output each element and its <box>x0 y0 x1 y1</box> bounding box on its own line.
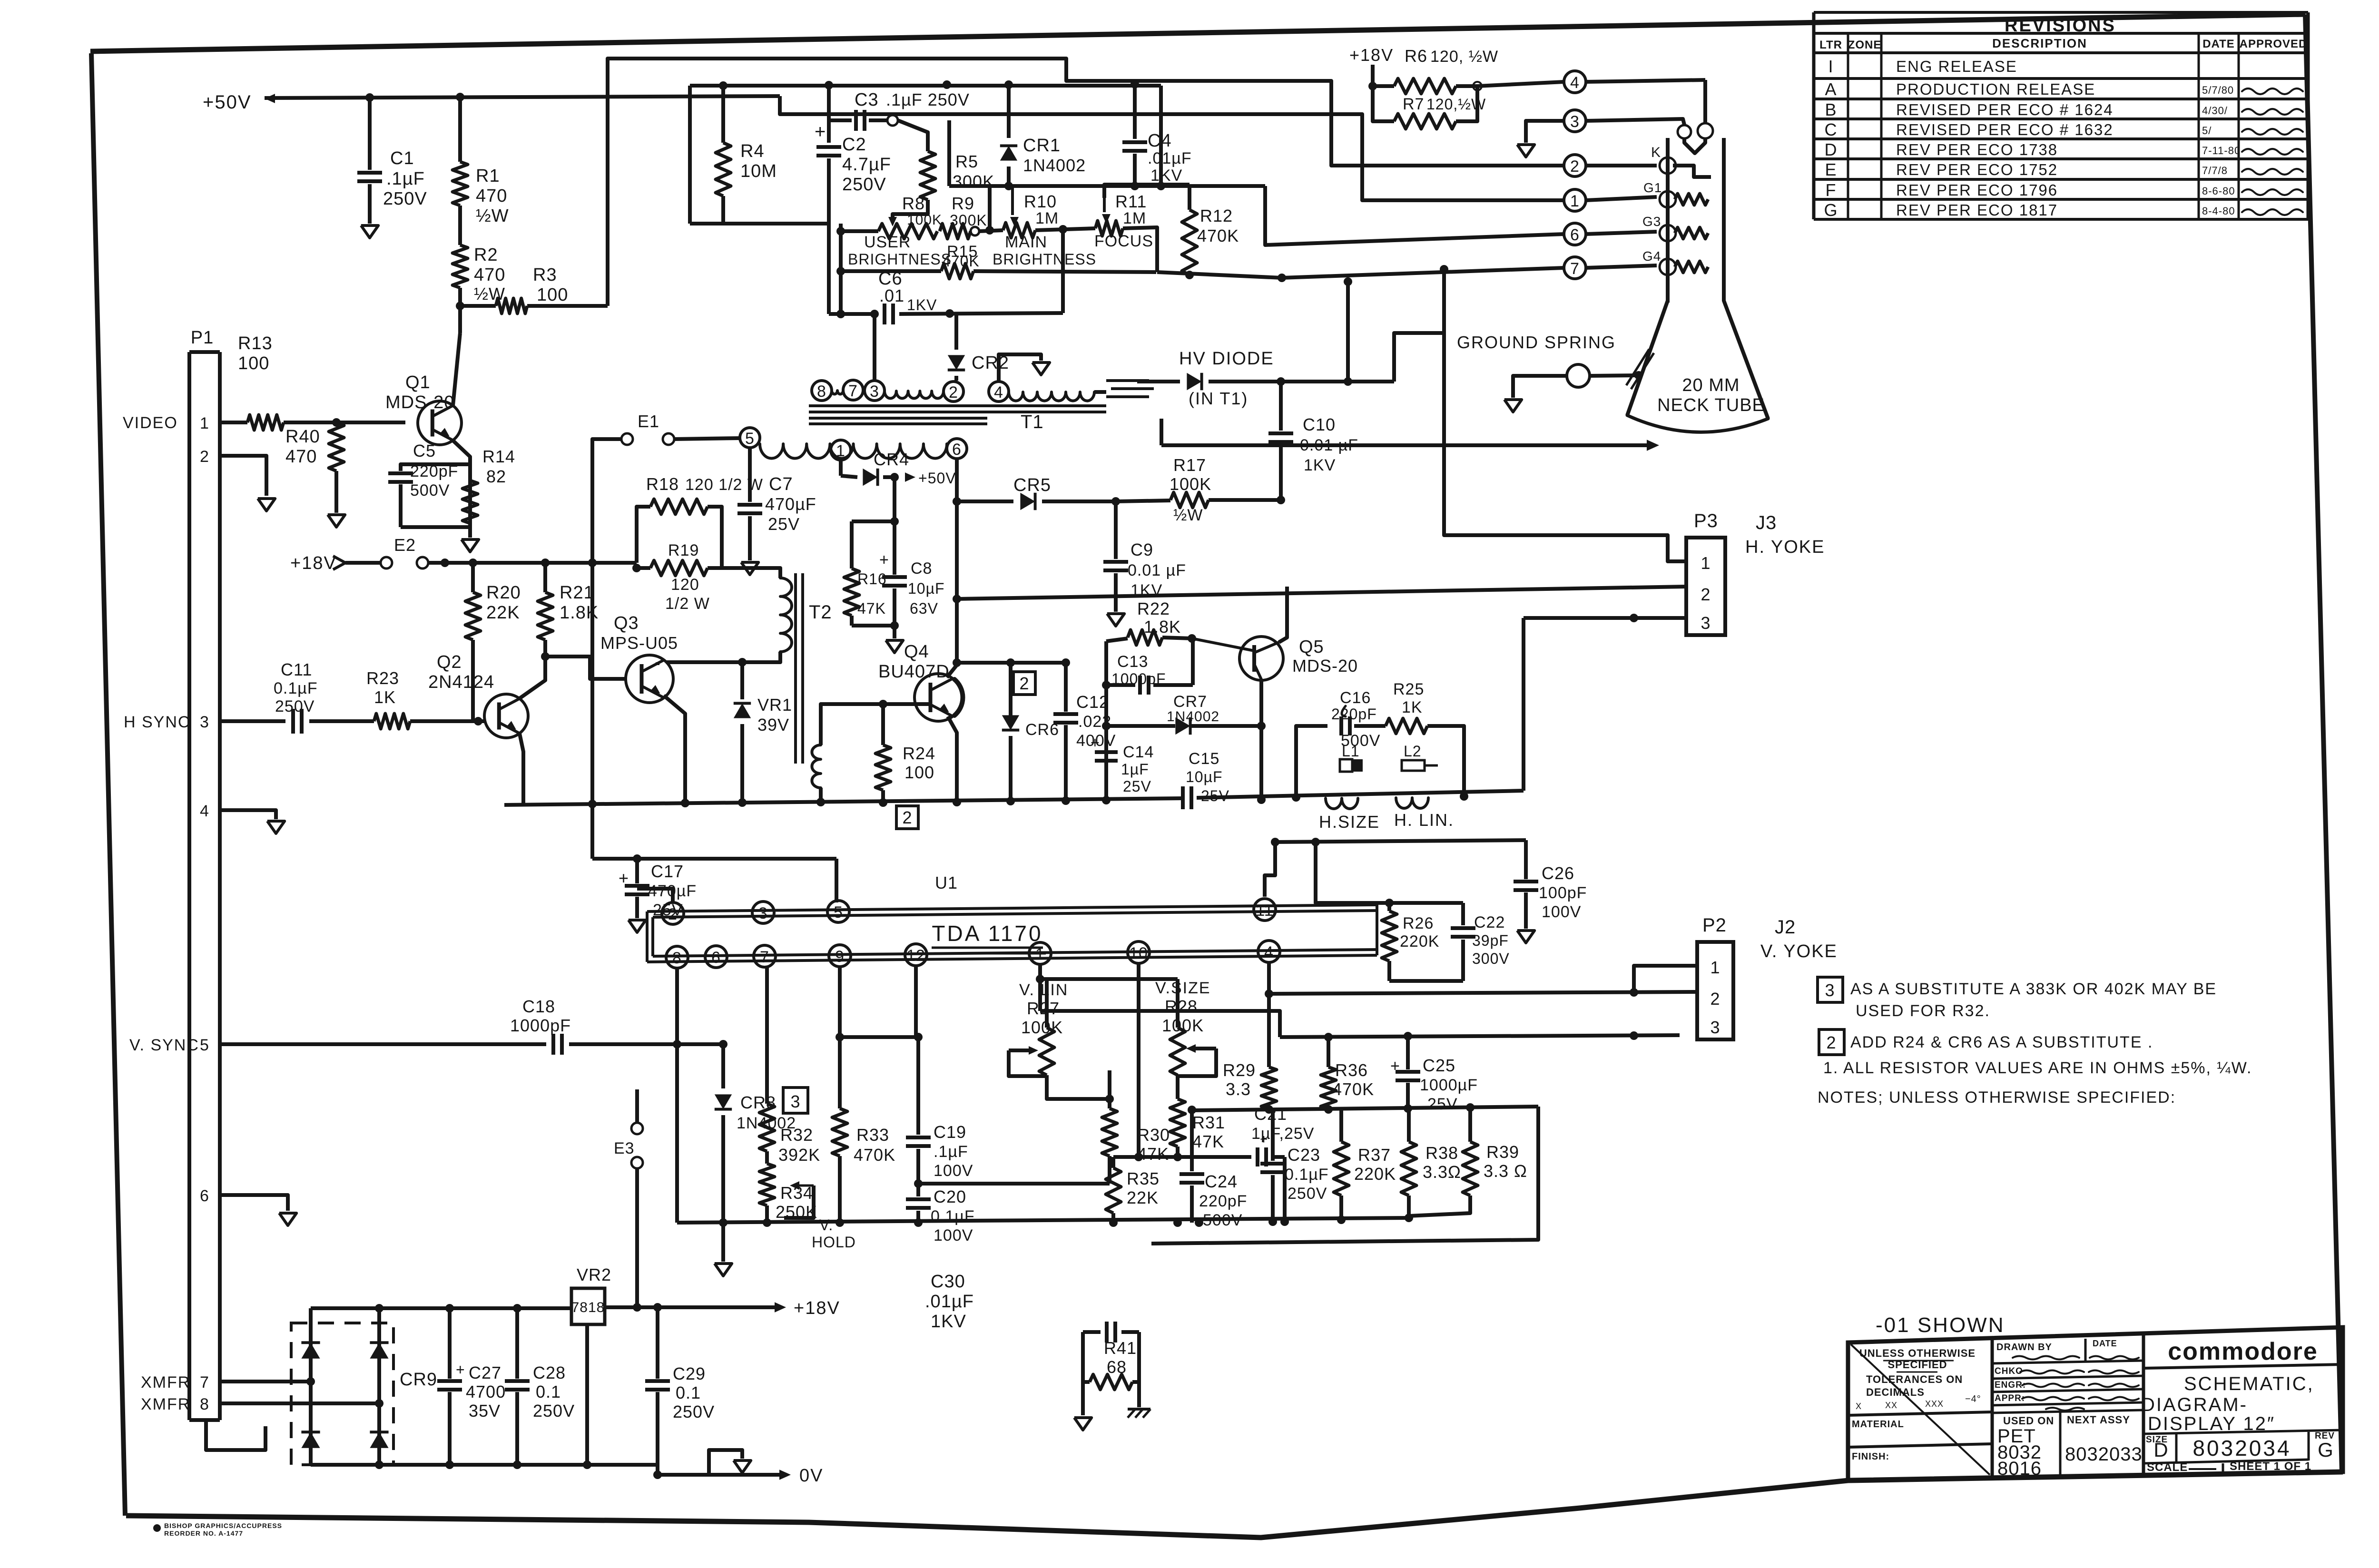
svg-text:7: 7 <box>1570 260 1580 278</box>
wire T2 secondary bottom <box>819 788 823 802</box>
svg-text:P1: P1 <box>191 328 214 348</box>
svg-text:100K: 100K <box>1021 1018 1063 1037</box>
svg-text:H. LIN.: H. LIN. <box>1394 810 1454 830</box>
svg-text:4: 4 <box>1264 943 1274 961</box>
capacitor C24 <box>1190 1109 1194 1171</box>
svg-text:8: 8 <box>672 949 682 967</box>
svg-text:J3: J3 <box>1756 512 1777 533</box>
svg-text:250V: 250V <box>1288 1185 1327 1203</box>
svg-text:6: 6 <box>952 441 962 459</box>
svg-text:CHKO: CHKO <box>1995 1366 2023 1376</box>
svg-text:C9: C9 <box>1131 540 1153 559</box>
svg-text:5/7/80: 5/7/80 <box>2202 84 2234 96</box>
svg-text:CR5: CR5 <box>1013 475 1051 495</box>
svg-text:C30: C30 <box>931 1272 965 1292</box>
svg-text:220K: 220K <box>1354 1164 1396 1184</box>
svg-text:DECIMALS: DECIMALS <box>1866 1386 1925 1398</box>
svg-text:−4°: −4° <box>1965 1394 1981 1404</box>
svg-text:25V: 25V <box>653 901 683 919</box>
resistor R35 <box>1113 1155 1178 1159</box>
svg-text:470K: 470K <box>854 1145 895 1165</box>
svg-text:470: 470 <box>474 265 505 285</box>
V network return loop <box>1151 1107 1538 1244</box>
resistor R36 <box>1327 1037 1330 1067</box>
svg-text:C17: C17 <box>651 862 684 881</box>
svg-text:3.3 Ω: 3.3 Ω <box>1484 1161 1527 1181</box>
svg-text:470K: 470K <box>1332 1079 1374 1099</box>
R28 wiper loop <box>1178 1049 1216 1076</box>
svg-text:R20: R20 <box>486 583 521 603</box>
svg-text:Q3: Q3 <box>614 613 639 633</box>
svg-text:C15: C15 <box>1189 750 1219 768</box>
T1 pin 3 <box>865 381 885 401</box>
svg-text:5: 5 <box>745 430 755 448</box>
svg-text:7: 7 <box>760 948 769 966</box>
svg-text:R32: R32 <box>780 1125 813 1145</box>
svg-text:R23: R23 <box>366 668 399 688</box>
svg-text:1000µF: 1000µF <box>1420 1076 1478 1094</box>
svg-text:C13: C13 <box>1117 653 1148 671</box>
svg-text:+: + <box>879 551 889 569</box>
wire pin1 net to P2 pin3 <box>1040 1011 1280 1037</box>
note 3 box <box>1818 977 1843 1002</box>
capacitor C27 (polarized) <box>448 1308 452 1379</box>
svg-text:SCALE: SCALE <box>2147 1461 2188 1474</box>
svg-text:120 1/2 W: 120 1/2 W <box>685 476 763 494</box>
resistor R37 <box>1339 1109 1343 1142</box>
svg-text:R4: R4 <box>740 141 765 161</box>
svg-text:4: 4 <box>994 383 1003 402</box>
resistor R19 <box>637 566 650 570</box>
svg-text:220pF: 220pF <box>1199 1192 1247 1210</box>
title block size/dwg row <box>2143 1430 2343 1434</box>
svg-text:VIDEO: VIDEO <box>123 414 178 432</box>
svg-text:R26: R26 <box>1403 914 1434 932</box>
T1 core lines <box>809 404 1106 407</box>
svg-text:120: 120 <box>671 576 699 594</box>
P1 bottom hook wire <box>206 1420 265 1450</box>
R8 wiper from R5 <box>888 217 897 226</box>
resistor R40 <box>329 422 344 471</box>
note box 3 above R32 <box>783 1088 808 1113</box>
T1 tap pin 1 <box>831 440 851 460</box>
supply bottom rail <box>311 1463 658 1467</box>
svg-text:100: 100 <box>238 353 269 373</box>
wire trunk left of R22 <box>1104 641 1108 800</box>
T1 pin 7 <box>843 380 863 400</box>
svg-text:C26: C26 <box>1542 863 1574 883</box>
U1 pin 5 <box>827 901 849 922</box>
resistor R32 <box>759 1104 775 1151</box>
svg-text:H. YOKE: H. YOKE <box>1745 537 1825 557</box>
T1 winding 3-2 <box>885 391 944 398</box>
svg-text:5: 5 <box>834 903 843 921</box>
capacitor C18 series <box>551 1034 555 1055</box>
node dot C1 top <box>365 93 374 102</box>
diode CR2 <box>954 314 958 350</box>
capacitor C26 <box>1524 840 1528 879</box>
inductor L1 slug symbol <box>1340 759 1352 772</box>
svg-text:B: B <box>1825 100 1837 119</box>
wire +18V drop <box>1371 65 1375 86</box>
svg-text:NOTES; UNLESS OTHERWISE SPE: NOTES; UNLESS OTHERWISE SPECIFIED: <box>1818 1088 2176 1107</box>
P1 pin6 ground stub <box>220 1195 288 1211</box>
svg-text:R37: R37 <box>1358 1145 1391 1165</box>
wire C2 bottom to C6 node <box>827 224 831 314</box>
svg-text:.1µF: .1µF <box>386 169 425 189</box>
ground below C9 <box>1107 614 1124 626</box>
wire J3 pin3 <box>1524 616 1686 620</box>
svg-text:C27: C27 <box>469 1363 501 1382</box>
svg-text:1/2 W: 1/2 W <box>665 595 710 613</box>
svg-text:R2: R2 <box>474 245 498 265</box>
supply top rail +18V unreg <box>311 1306 571 1310</box>
svg-text:2: 2 <box>1701 585 1711 604</box>
resistor R39 <box>1468 1107 1472 1142</box>
wire Q2 collector to Q3 base <box>545 657 627 679</box>
capacitor C29 <box>656 1307 659 1379</box>
svg-text:0.01 µF: 0.01 µF <box>1128 561 1186 579</box>
svg-text:V.SIZE: V.SIZE <box>1155 979 1211 997</box>
svg-text:470: 470 <box>285 447 317 467</box>
wire Q1 emitter to C5/R14 <box>453 441 470 464</box>
capacitor C11 in H sync line <box>220 719 285 723</box>
svg-text:VR2: VR2 <box>577 1265 611 1284</box>
T1 secondary winding 5-6 <box>740 428 760 448</box>
svg-text:C: C <box>1825 120 1838 139</box>
U1 pin 1 <box>1029 942 1051 964</box>
svg-text:20 MM: 20 MM <box>1682 375 1740 395</box>
svg-text:R18: R18 <box>646 474 679 494</box>
svg-text:C2: C2 <box>842 135 866 155</box>
svg-text:C19: C19 <box>934 1122 966 1142</box>
+50V output arrow <box>890 473 899 481</box>
svg-text:D: D <box>1825 140 1838 159</box>
H section bottom rail <box>504 798 1183 805</box>
svg-text:DIAGRAM-: DIAGRAM- <box>2141 1394 2248 1415</box>
svg-text:REVISED PER ECO # 1632: REVISED PER ECO # 1632 <box>1896 121 2114 138</box>
svg-text:REORDER NO. A-1477: REORDER NO. A-1477 <box>164 1529 243 1537</box>
svg-text:CR7: CR7 <box>1173 693 1207 711</box>
wire pin1/R27-R28 connection <box>1108 1070 1111 1099</box>
resistor R11 FOCUS pot <box>1095 221 1123 236</box>
svg-text:½W: ½W <box>476 206 509 226</box>
U1 pin 7 <box>754 945 776 967</box>
circled wire number 7 <box>1564 257 1586 279</box>
T1 chassis triple bar <box>1106 379 1149 382</box>
wire brightness bus y391 <box>949 184 1265 188</box>
svg-text:F: F <box>1826 180 1837 200</box>
pot R27 V LIN <box>1045 979 1049 1028</box>
wire T2 primary bottom to Q3 <box>666 652 780 662</box>
svg-text:1. ALL RESISTOR VALUES ARE IN: 1. ALL RESISTOR VALUES ARE IN OHMS ±5%, … <box>1823 1059 2252 1077</box>
svg-text:100V: 100V <box>934 1226 973 1245</box>
resistor R8 USER BRIGHTNESS pot <box>878 224 937 239</box>
resistor R12 <box>1188 185 1191 210</box>
svg-text:250V: 250V <box>275 697 315 715</box>
ground at P1 pin6 <box>279 1213 296 1225</box>
svg-text:R27: R27 <box>1027 999 1060 1018</box>
svg-text:E: E <box>1825 160 1837 179</box>
wire C19 bottom to R30 <box>918 1182 1110 1186</box>
wire Q2 collector <box>520 657 545 698</box>
T1 winding 8-7 <box>832 391 843 394</box>
svg-text:C12: C12 <box>1076 692 1109 712</box>
wire to G3 grid line <box>1265 186 1564 245</box>
svg-text:4.7µF: 4.7µF <box>842 155 891 175</box>
wire C17 top feed <box>592 857 836 861</box>
svg-text:68: 68 <box>1107 1357 1127 1377</box>
CRT grid3 resistor <box>1675 227 1708 239</box>
wire Q2 emitter down to rail <box>520 734 523 805</box>
svg-text:3.3Ω: 3.3Ω <box>1423 1162 1461 1182</box>
sheet top border <box>90 14 2305 51</box>
svg-text:2: 2 <box>1710 989 1720 1009</box>
svg-text:R6: R6 <box>1405 46 1427 66</box>
svg-text:+18V: +18V <box>290 553 337 573</box>
svg-text:USER: USER <box>864 233 911 251</box>
svg-text:R29: R29 <box>1223 1060 1256 1080</box>
wire P2 pin2 long <box>1269 992 1697 994</box>
svg-text:392K: 392K <box>778 1145 820 1165</box>
svg-text:4: 4 <box>200 802 209 820</box>
svg-text:+50V: +50V <box>918 470 956 487</box>
revisions table grid <box>1814 11 2308 14</box>
connector P3 <box>1686 538 1725 635</box>
U1 pin 12 <box>905 944 927 966</box>
wire C4 bottom leg <box>1133 154 1137 186</box>
node dot R17/C10 <box>1277 496 1285 504</box>
node dot R1 top <box>456 93 464 101</box>
svg-text:120,½W: 120,½W <box>1426 96 1486 113</box>
svg-text:C25: C25 <box>1423 1056 1455 1075</box>
T2 core lines <box>794 573 797 764</box>
svg-text:2: 2 <box>1019 674 1029 693</box>
svg-text:+50V: +50V <box>203 92 252 113</box>
svg-text:TDA 1170: TDA 1170 <box>932 921 1042 946</box>
svg-text:R31: R31 <box>1192 1113 1225 1132</box>
svg-text:R21: R21 <box>560 583 594 603</box>
svg-text:C16: C16 <box>1340 689 1371 707</box>
R26/C22 bottom join <box>1389 979 1463 983</box>
svg-text:R7: R7 <box>1403 95 1424 113</box>
svg-text:7-11-80: 7-11-80 <box>2202 145 2241 157</box>
H size/lin box outline <box>1296 726 1327 797</box>
svg-text:1KV: 1KV <box>1150 167 1182 185</box>
T1 pin4 ground hook <box>999 354 1041 382</box>
svg-text:½W: ½W <box>1173 506 1203 524</box>
wire pin6 riser down <box>955 459 959 501</box>
svg-text:500V: 500V <box>410 481 450 500</box>
svg-text:8-4-80: 8-4-80 <box>2202 205 2235 217</box>
svg-text:H.SIZE: H.SIZE <box>1319 812 1380 832</box>
connector P1 <box>187 352 191 1420</box>
wire P2 pin3 long <box>1280 1035 1680 1037</box>
R10 wiper arrow <box>1011 186 1014 215</box>
svg-text:C28: C28 <box>533 1363 566 1382</box>
wire R4 bottom to C2 bottom <box>690 222 829 225</box>
svg-text:USED ON: USED ON <box>2003 1415 2054 1427</box>
+18V output arrow <box>775 1302 786 1313</box>
diode CR8 <box>719 1040 727 1049</box>
T2 primary winding <box>780 578 792 652</box>
bridge diode bottom-left <box>301 1432 320 1448</box>
svg-text:R36: R36 <box>1335 1060 1368 1080</box>
svg-text:MATERIAL: MATERIAL <box>1852 1419 1904 1430</box>
svg-text:C11: C11 <box>281 660 312 679</box>
transistor Q2 2N4124 <box>484 694 528 738</box>
wire node A left leg <box>688 86 692 114</box>
wire top node A <box>690 84 1161 88</box>
svg-text:+: + <box>1091 734 1100 751</box>
svg-text:R28: R28 <box>1165 997 1198 1016</box>
transistor Q5 MDS-20 <box>1239 637 1283 680</box>
bridge left leg <box>309 1308 313 1465</box>
wire HV to G4 bus riser <box>1346 281 1350 382</box>
svg-text:C8: C8 <box>911 559 932 578</box>
L2 coil bumps <box>1396 798 1428 808</box>
svg-text:T2: T2 <box>809 602 832 623</box>
svg-text:1: 1 <box>1035 945 1045 963</box>
ground on ground spring <box>1504 400 1522 412</box>
svg-text:L1: L1 <box>1342 743 1360 760</box>
svg-text:T1: T1 <box>1021 412 1044 432</box>
main drive wire to yoke P3 <box>957 587 1686 599</box>
wire E1 riser <box>592 439 621 563</box>
wire 0V rail <box>658 1473 780 1477</box>
svg-text:R33: R33 <box>856 1125 889 1145</box>
resistor R38 <box>1407 1108 1411 1142</box>
wire R2 to R3 junction <box>458 288 462 306</box>
svg-text:+18V: +18V <box>794 1298 840 1318</box>
svg-text:AS A SUBSTITUTE A 383K OR 402K: AS A SUBSTITUTE A 383K OR 402K MAY BE <box>1850 980 2217 998</box>
svg-text:4700: 4700 <box>466 1382 506 1401</box>
box right side <box>1427 726 1464 796</box>
svg-text:MAIN: MAIN <box>1005 233 1047 251</box>
svg-text:100V: 100V <box>1542 903 1581 921</box>
inductor L2 slug symbol <box>1402 760 1425 771</box>
svg-text:K: K <box>1651 145 1661 160</box>
svg-text:P3: P3 <box>1694 510 1718 531</box>
svg-text:8016: 8016 <box>1997 1458 2042 1479</box>
capacitor C12 <box>1064 663 1068 712</box>
svg-text:2: 2 <box>949 383 958 402</box>
svg-text:7: 7 <box>848 382 858 400</box>
circled wire number 2 <box>1564 155 1586 176</box>
svg-text:.01µF: .01µF <box>925 1292 974 1312</box>
node dot C9 <box>1111 497 1120 506</box>
svg-text:8: 8 <box>817 382 826 401</box>
svg-text:1: 1 <box>1710 958 1720 977</box>
ground below C26 <box>1517 931 1534 943</box>
resistor R33 <box>832 1108 847 1156</box>
svg-text:V.: V. <box>819 1216 833 1234</box>
resistor R20 <box>465 592 481 640</box>
ground below C7 <box>741 562 758 575</box>
svg-text:470: 470 <box>476 186 507 206</box>
svg-text:8032033: 8032033 <box>2065 1444 2143 1465</box>
svg-text:0.1: 0.1 <box>676 1383 701 1402</box>
wire rail to J3 pin3 riser <box>1522 618 1525 791</box>
svg-text:REV PER ECO 1752: REV PER ECO 1752 <box>1896 161 2058 178</box>
svg-text:1: 1 <box>1570 192 1580 210</box>
capacitor C25 (polarized) <box>1406 1036 1410 1069</box>
R28 wiper arrow <box>1186 1044 1196 1053</box>
ground at P1 pin2 <box>258 499 275 511</box>
svg-text:3.3: 3.3 <box>1226 1079 1251 1099</box>
svg-text:Q4: Q4 <box>904 642 929 662</box>
T1 pin 8 <box>812 381 832 401</box>
capacitor C4 <box>1133 84 1137 139</box>
wire J3 pin2 long <box>1684 585 1688 588</box>
resistor R34 pot V HOLD <box>765 1151 769 1164</box>
wire +50V to grid bus <box>780 96 1564 200</box>
resistor R41 <box>1090 1374 1132 1390</box>
svg-text:NECK TUBE: NECK TUBE <box>1657 395 1765 415</box>
resistor R22 <box>1106 638 1128 641</box>
svg-text:1K: 1K <box>1402 698 1423 716</box>
T1 pin 4 <box>989 382 1009 402</box>
wire Q5 emitter down <box>1259 679 1263 800</box>
pot R28 V SIZE <box>1176 979 1180 1028</box>
svg-text:ENG RELEASE: ENG RELEASE <box>1896 58 2017 75</box>
R27 wiper arrow <box>1029 1046 1038 1055</box>
svg-text:1KV: 1KV <box>907 296 937 314</box>
wire T2 secondary to Q4 base <box>821 704 929 745</box>
svg-text:D: D <box>2153 1439 2168 1461</box>
T2 secondary winding <box>812 745 821 788</box>
svg-text:G3: G3 <box>1642 214 1661 229</box>
CRT grid4 resistor <box>1675 261 1708 273</box>
CRT neck internal line <box>1666 174 1670 191</box>
CRT cathode hook <box>1673 166 1711 177</box>
wire pin7 down <box>765 966 769 1104</box>
wire pin11 top rail <box>635 857 639 861</box>
svg-text:REV PER ECO 1738: REV PER ECO 1738 <box>1896 141 2058 158</box>
svg-text:E3: E3 <box>614 1139 635 1157</box>
capacitor C17 (polarized) <box>635 859 639 883</box>
svg-text:7818: 7818 <box>571 1300 605 1315</box>
svg-text:.1µF: .1µF <box>934 1143 968 1161</box>
svg-text:25V: 25V <box>1201 787 1229 804</box>
svg-text:E1: E1 <box>638 412 659 431</box>
svg-text:C20: C20 <box>934 1187 966 1206</box>
svg-text:3: 3 <box>200 713 209 731</box>
svg-text:G: G <box>1824 200 1838 220</box>
svg-text:R40: R40 <box>285 427 320 447</box>
svg-text:DATE: DATE <box>2093 1339 2117 1348</box>
svg-text:C24: C24 <box>1205 1172 1238 1191</box>
node R9/R10 junction <box>979 230 1003 231</box>
svg-text:1M: 1M <box>1035 209 1059 227</box>
svg-text:BRIGHTNESS: BRIGHTNESS <box>993 251 1096 268</box>
bridge diode top-right <box>370 1343 388 1359</box>
svg-text:MDS-20: MDS-20 <box>385 392 454 412</box>
diode CR7 <box>1102 722 1111 730</box>
wire pots left column <box>839 224 843 314</box>
svg-text:V. YOKE: V. YOKE <box>1760 941 1838 961</box>
capacitor C10 <box>1279 382 1283 431</box>
wire pin12 down <box>914 965 918 1037</box>
resistor R26 <box>1387 903 1391 911</box>
svg-text:G1: G1 <box>1643 180 1662 195</box>
svg-text:250V: 250V <box>383 189 427 209</box>
svg-text:R5: R5 <box>955 152 978 171</box>
svg-text:FINISH:: FINISH: <box>1852 1451 1889 1462</box>
wire J3 pin1 <box>1444 269 1686 561</box>
capacitor C2 (polarized) <box>827 120 831 143</box>
svg-text:HV DIODE: HV DIODE <box>1179 349 1274 369</box>
